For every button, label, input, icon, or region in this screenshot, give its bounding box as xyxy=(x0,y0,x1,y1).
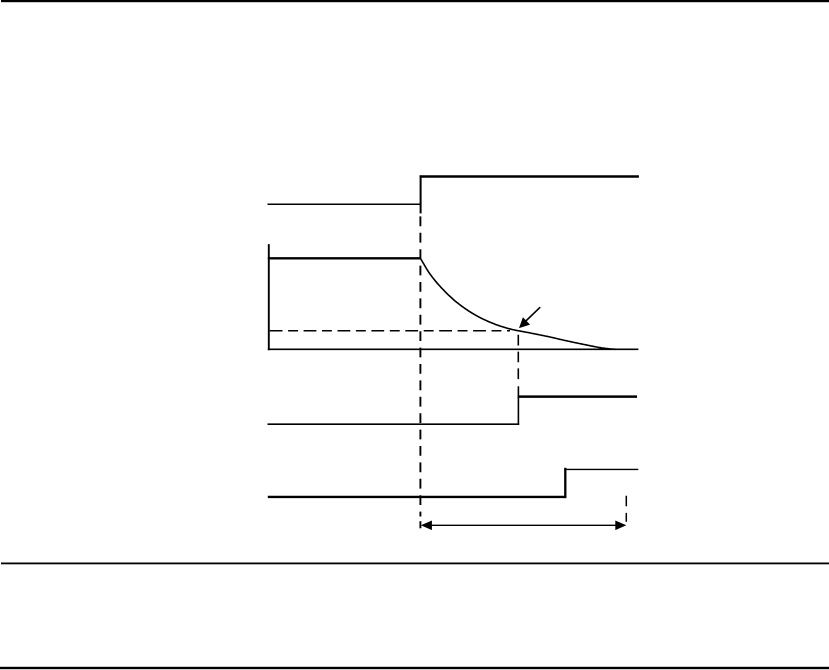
signal S3 low level line xyxy=(268,423,520,425)
signal S3 rising edge (solid part) xyxy=(517,386,519,425)
interval arrow right head xyxy=(615,521,626,531)
signal S2 high level line xyxy=(268,257,421,259)
signal S3 high level line xyxy=(518,395,637,398)
signal S4 low level line xyxy=(268,496,567,498)
signal S1 low level line xyxy=(268,203,421,205)
footer separator rule xyxy=(1,563,829,565)
dashed vertical timing line at t0 xyxy=(419,216,421,516)
top page rule xyxy=(1,0,829,2)
signal S2 exponential decay curve xyxy=(421,259,617,350)
dashed vertical drop line at threshold crossing xyxy=(517,335,519,382)
interval arrow left head xyxy=(421,521,432,531)
signal S4 rising edge xyxy=(564,468,566,498)
signal S2 baseline xyxy=(268,348,639,350)
signal S2 left axis xyxy=(268,244,270,350)
signal S1 rising edge at t0 xyxy=(420,175,422,213)
pointer arrow shaft xyxy=(525,307,540,322)
dashed vertical tick at interval end xyxy=(625,496,627,522)
bottom page rule xyxy=(0,667,829,669)
pointer arrow head xyxy=(519,317,530,328)
dashed threshold level line xyxy=(270,330,510,332)
signal S4 high level line xyxy=(564,468,638,470)
signal S1 high level line xyxy=(420,175,639,177)
interval measurement arrow shaft xyxy=(428,524,619,526)
